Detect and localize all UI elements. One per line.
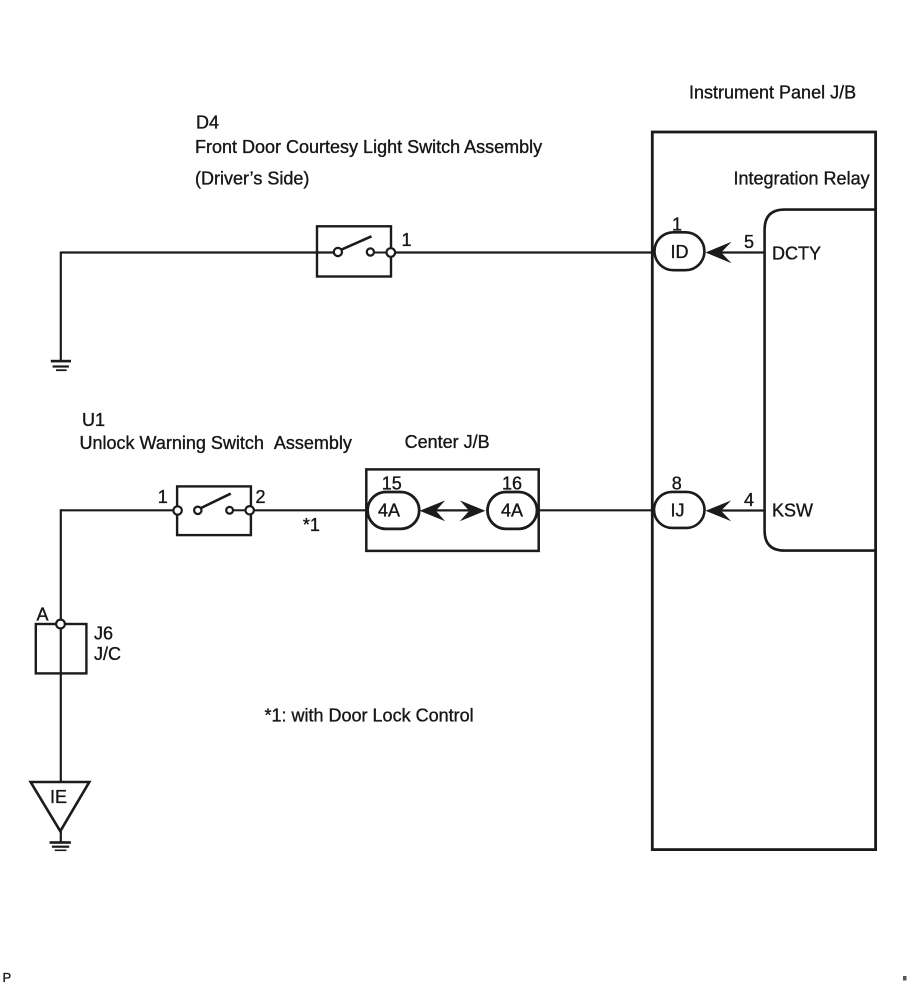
svg-text:4: 4 bbox=[744, 490, 754, 510]
junction J6 box bbox=[36, 624, 87, 673]
svg-text:Instrument Panel J/B: Instrument Panel J/B bbox=[689, 83, 856, 103]
node A circle bbox=[56, 620, 65, 629]
wire top horizontal left to D4 bbox=[61, 251, 334, 253]
wire U1 row left horizontal bbox=[61, 509, 174, 511]
arrow left fuse bbox=[420, 500, 446, 521]
svg-text:J6: J6 bbox=[94, 624, 113, 644]
svg-text:DCTY: DCTY bbox=[772, 244, 821, 264]
svg-text:P: P bbox=[3, 970, 12, 984]
svg-text:15: 15 bbox=[382, 474, 402, 494]
switch D4 box bbox=[317, 226, 391, 276]
speck bottom right bbox=[903, 976, 907, 981]
switch D4 contacts bbox=[334, 236, 395, 256]
svg-text:A: A bbox=[37, 605, 49, 625]
switch U1 contacts bbox=[173, 494, 253, 515]
wire U1 to Center J/B bbox=[254, 509, 368, 511]
switch U1 box bbox=[177, 486, 251, 535]
svg-text:Unlock Warning Switch Assembl: Unlock Warning Switch Assembly bbox=[80, 433, 352, 453]
svg-text:(Driver’s Side): (Driver’s Side) bbox=[195, 169, 309, 189]
wire left vertical node A bbox=[60, 509, 62, 620]
arrow right fuse bbox=[460, 500, 486, 521]
svg-text:1: 1 bbox=[158, 487, 168, 507]
wire between fuse arrows bbox=[434, 509, 471, 511]
wire D4 to ID bbox=[395, 251, 656, 253]
wire J6 down bbox=[60, 628, 62, 781]
wire Center J/B to IJ bbox=[537, 509, 656, 511]
svg-text:Front Door Courtesy Light Swit: Front Door Courtesy Light Switch Assembl… bbox=[195, 137, 542, 157]
Instrument Panel J/B box bbox=[652, 132, 875, 850]
svg-text:Integration Relay: Integration Relay bbox=[734, 169, 870, 189]
wire arrow to DCTY bbox=[720, 251, 765, 253]
arrow to IJ bbox=[706, 500, 732, 521]
svg-text:4A: 4A bbox=[501, 501, 523, 521]
svg-text:IJ: IJ bbox=[671, 501, 685, 521]
svg-text:KSW: KSW bbox=[772, 501, 813, 521]
svg-text:D4: D4 bbox=[196, 113, 219, 133]
svg-text:5: 5 bbox=[744, 232, 754, 252]
ground IE triangle bbox=[31, 782, 90, 831]
connector IJ bbox=[654, 492, 705, 528]
wire left vertical to ground bbox=[60, 252, 62, 361]
svg-text:Center J/B: Center J/B bbox=[405, 432, 490, 452]
Center J/B box bbox=[366, 469, 538, 551]
svg-text:J/C: J/C bbox=[94, 644, 121, 664]
svg-text:*1: with Door Lock Control: *1: with Door Lock Control bbox=[265, 706, 474, 726]
svg-text:1: 1 bbox=[672, 215, 682, 235]
svg-text:IE: IE bbox=[50, 787, 67, 807]
svg-text:4A: 4A bbox=[378, 501, 400, 521]
svg-text:*1: *1 bbox=[303, 515, 320, 535]
ground G2 bbox=[50, 841, 71, 851]
ground G1 top left bbox=[51, 360, 71, 371]
fuse 15 4A bbox=[368, 492, 420, 529]
Integration Relay box bbox=[765, 210, 876, 551]
svg-text:8: 8 bbox=[672, 473, 682, 493]
svg-text:16: 16 bbox=[502, 474, 522, 494]
wire arrow to KSW bbox=[720, 509, 765, 511]
svg-text:2: 2 bbox=[256, 487, 266, 507]
svg-text:1: 1 bbox=[402, 230, 412, 250]
svg-text:ID: ID bbox=[671, 242, 689, 262]
wire IE apex to ground bbox=[60, 830, 62, 842]
svg-text:U1: U1 bbox=[82, 410, 105, 430]
fuse 16 4A bbox=[488, 492, 538, 529]
connector ID bbox=[655, 232, 705, 270]
arrow to ID bbox=[706, 242, 732, 263]
